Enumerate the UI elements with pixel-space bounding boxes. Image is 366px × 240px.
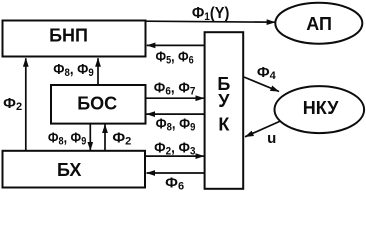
ellipse НКУ [275,86,365,133]
svg-text:Ф6, Ф7: Ф6, Ф7 [154,80,196,98]
ellipse АП [275,3,362,44]
wire arrow Ф8,Ф9 from БУК to БОС [147,113,205,115]
svg-text:БНП: БНП [49,26,88,46]
svg-text:Ф8, Ф9: Ф8, Ф9 [48,130,86,148]
block БУК [205,32,244,189]
svg-text:u: u [267,130,276,147]
wire arrow Ф2,Ф3 from БХ to БУК [146,155,205,157]
svg-text:АП: АП [306,14,332,34]
svg-text:Ф5, Ф6: Ф5, Ф6 [156,49,194,67]
svg-text:У: У [218,91,230,111]
svg-text:Ф8, Ф9: Ф8, Ф9 [156,116,196,134]
svg-text:К: К [218,115,230,135]
wire arrow Ф8,Ф9 from БОС to БНП (up) [97,58,99,85]
block БХ [3,151,146,188]
wire arrow Ф6,Ф7 from БОС to БУК [146,97,205,99]
wire arrow u from НКУ to БУК [245,121,281,137]
wire arrow Ф2 from БХ to БОС (up) [104,124,106,150]
wire arrow Ф5,Ф6 from БУК to БНП [147,44,205,46]
wire arrow Ф6 from БУК to БХ [147,172,205,174]
block БОС [51,85,146,124]
svg-text:Ф2, Ф3: Ф2, Ф3 [154,140,195,158]
svg-text:БХ: БХ [57,160,82,180]
wire arrow Ф8,Ф9 from БОС to БХ (down) [89,124,91,151]
wire arrow Ф4 from БУК to НКУ [244,77,279,92]
svg-text:Ф1(Y): Ф1(Y) [192,5,230,23]
wire arrow Ф2 from БХ to БНП (left) [25,58,27,151]
block БНП [3,21,146,57]
svg-text:НКУ: НКУ [303,98,339,118]
svg-text:БОС: БОС [77,93,117,113]
svg-text:Ф8, Ф9: Ф8, Ф9 [53,61,94,79]
wire arrow Ф1(Y) from БНП to АП [147,21,276,22]
